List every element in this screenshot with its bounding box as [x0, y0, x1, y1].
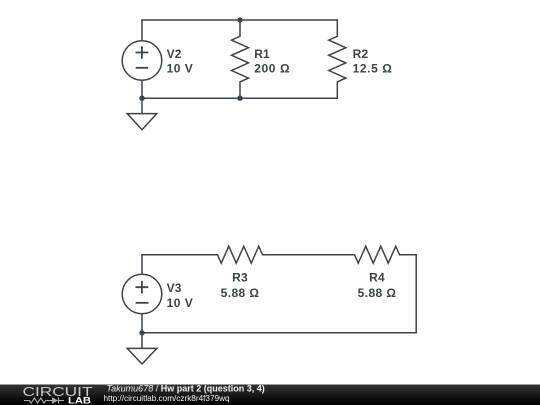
svg-text:12.5 Ω: 12.5 Ω: [353, 62, 393, 76]
svg-text:Takumu678 / Hw part 2 (questio: Takumu678 / Hw part 2 (question 3, 4): [107, 384, 265, 394]
svg-text:200 Ω: 200 Ω: [254, 62, 290, 76]
svg-text:R4: R4: [369, 271, 385, 285]
svg-text:10 V: 10 V: [167, 296, 194, 310]
svg-text:V3: V3: [167, 281, 182, 295]
svg-text:5.88 Ω: 5.88 Ω: [221, 286, 260, 300]
svg-text:R3: R3: [232, 271, 248, 285]
svg-text:V2: V2: [167, 47, 182, 61]
svg-text:http://circuitlab.com/czrk8r4f: http://circuitlab.com/czrk8r4f379wq: [104, 394, 230, 403]
svg-text:5.88 Ω: 5.88 Ω: [358, 286, 397, 300]
svg-text:LAB: LAB: [68, 396, 92, 405]
svg-text:R2: R2: [353, 47, 369, 61]
svg-text:R1: R1: [254, 47, 270, 61]
svg-text:10 V: 10 V: [167, 62, 194, 76]
